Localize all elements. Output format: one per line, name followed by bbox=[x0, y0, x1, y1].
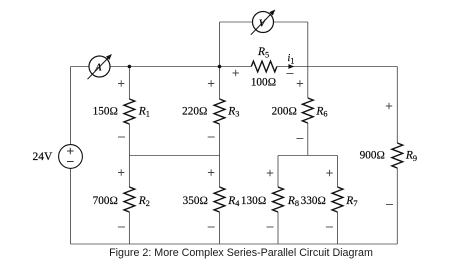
wire bottom horizontal bbox=[71, 243, 398, 245]
wire R6 bottom lead bbox=[307, 123, 309, 156]
svg-text:150Ω: 150Ω bbox=[93, 106, 118, 118]
svg-text:R2: R2 bbox=[138, 195, 150, 208]
wire R2 top lead bbox=[128, 156, 130, 188]
wire R8R7 top rail bbox=[278, 155, 338, 157]
wire left branch lower (source bottom lead) bbox=[70, 168, 72, 244]
plus sign R2 bbox=[118, 169, 124, 175]
wire left branch upper (source top lead) bbox=[70, 67, 72, 145]
svg-text:R6: R6 bbox=[315, 105, 327, 118]
plus sign R7 bbox=[326, 170, 332, 176]
voltmeter needle arrow bbox=[251, 10, 275, 35]
minus sign R1 bbox=[118, 136, 125, 138]
wire R8 bottom lead bbox=[277, 212, 279, 244]
wire R7 bottom lead bbox=[337, 212, 339, 244]
wire R6 top lead bbox=[307, 67, 309, 99]
minus sign R6 bbox=[296, 138, 303, 140]
svg-text:220Ω: 220Ω bbox=[182, 106, 207, 118]
wire voltmeter branch top left segment bbox=[220, 21, 253, 23]
svg-text:900Ω: 900Ω bbox=[360, 150, 385, 162]
plus sign R4 bbox=[208, 169, 214, 175]
wire right branch lower (R9 bottom lead) bbox=[396, 168, 398, 244]
node junction dot B bbox=[218, 65, 222, 69]
wire right branch upper (R9 top lead) bbox=[396, 67, 398, 144]
minus sign R2 bbox=[118, 226, 125, 228]
svg-text:R5: R5 bbox=[257, 46, 269, 60]
svg-text:100Ω: 100Ω bbox=[251, 76, 276, 88]
resistor R7 zigzag bbox=[332, 187, 343, 212]
minus sign R8 bbox=[267, 226, 274, 228]
svg-text:i1: i1 bbox=[288, 53, 295, 65]
svg-text:R1: R1 bbox=[138, 105, 150, 118]
voltage source minus sign bbox=[67, 161, 74, 163]
voltmeter V circle bbox=[253, 12, 274, 33]
svg-text:700Ω: 700Ω bbox=[93, 195, 118, 207]
resistor R3 zigzag bbox=[214, 99, 225, 124]
ammeter A circle bbox=[89, 56, 110, 77]
svg-text:R3: R3 bbox=[227, 105, 239, 118]
wire R4 bottom lead bbox=[219, 212, 221, 244]
svg-text:24V: 24V bbox=[33, 151, 54, 163]
svg-text:130Ω: 130Ω bbox=[241, 195, 266, 207]
svg-text:350Ω: 350Ω bbox=[183, 195, 208, 207]
wire top horizontal R5 to right corner bbox=[277, 66, 397, 68]
resistor R2 zigzag bbox=[124, 187, 135, 212]
resistor R8 zigzag bbox=[273, 187, 284, 212]
wire middle horizontal R1R2 to R3R4 bbox=[129, 155, 219, 157]
wire R1 top lead bbox=[128, 67, 130, 100]
wire R7 top lead bbox=[337, 156, 339, 188]
svg-text:R8: R8 bbox=[287, 195, 299, 208]
plus sign R3 bbox=[208, 80, 214, 86]
minus sign R5 bbox=[287, 73, 294, 75]
plus sign R9 bbox=[386, 103, 392, 109]
plus sign R6 bbox=[297, 80, 303, 86]
wire voltmeter branch left vertical bbox=[219, 22, 221, 67]
plus sign R1 bbox=[118, 80, 124, 86]
wire R1 bottom lead bbox=[128, 124, 130, 156]
voltage source plus sign bbox=[67, 148, 74, 155]
svg-text:R4: R4 bbox=[227, 195, 240, 208]
wire R3 top lead bbox=[219, 67, 221, 100]
resistor R6 zigzag bbox=[302, 98, 313, 123]
minus sign R4 bbox=[208, 226, 215, 228]
wire voltmeter branch top right segment bbox=[274, 21, 308, 23]
minus sign R3 bbox=[208, 136, 215, 138]
resistor R1 zigzag bbox=[124, 99, 135, 124]
plus sign R5 bbox=[233, 70, 239, 76]
wire R8 top lead bbox=[277, 156, 279, 188]
wire top horizontal ammeter to R5 bbox=[110, 66, 251, 68]
minus sign R9 bbox=[386, 204, 393, 206]
svg-text:R9: R9 bbox=[405, 150, 417, 163]
resistor R4 zigzag bbox=[214, 187, 225, 212]
svg-text:Figure 2: More Complex Series-: Figure 2: More Complex Series-Parallel C… bbox=[109, 247, 373, 259]
resistor R9 zigzag bbox=[392, 143, 403, 168]
resistor R5 zigzag bbox=[251, 61, 277, 72]
wire R4 top lead bbox=[219, 156, 221, 188]
wire top horizontal left of ammeter bbox=[71, 66, 90, 68]
current i1 arrowhead bbox=[288, 64, 294, 69]
wire R3 bottom lead bbox=[219, 124, 221, 156]
wire R2 bottom lead bbox=[128, 212, 130, 244]
wire voltmeter branch right vertical bbox=[307, 22, 309, 67]
svg-text:R7: R7 bbox=[345, 195, 357, 208]
voltage source VS circle bbox=[59, 145, 83, 169]
svg-text:200Ω: 200Ω bbox=[272, 106, 297, 118]
svg-text:330Ω: 330Ω bbox=[301, 195, 326, 207]
minus sign R7 bbox=[326, 226, 333, 228]
ammeter needle arrow bbox=[88, 54, 112, 79]
plus sign R8 bbox=[267, 170, 273, 176]
node junction dot A bbox=[128, 65, 132, 69]
